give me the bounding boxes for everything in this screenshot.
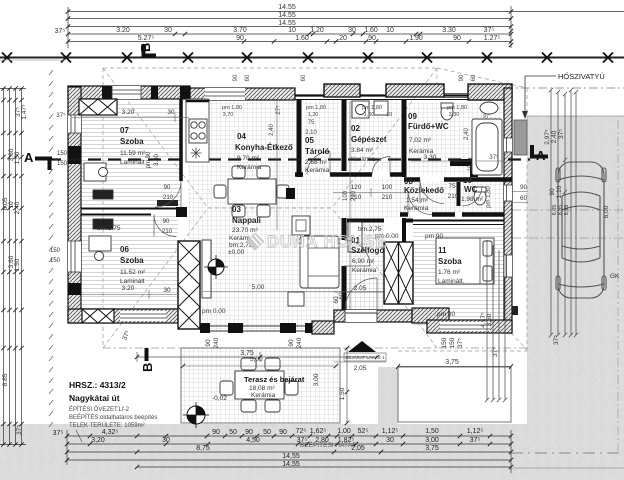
svg-text:bm:2,75: bm:2,75 bbox=[358, 226, 382, 233]
heat pump leader bbox=[525, 76, 556, 113]
wall storage|gepeszet bbox=[342, 99, 347, 171]
svg-text:1.47⁵: 1.47⁵ bbox=[21, 104, 28, 120]
bath south wall bbox=[404, 177, 512, 182]
svg-text:150: 150 bbox=[441, 337, 448, 348]
bath wall stub right bbox=[470, 165, 478, 177]
svg-text:90: 90 bbox=[233, 74, 239, 81]
wc room toilet bbox=[474, 189, 486, 205]
svg-text:3,75: 3,75 bbox=[445, 359, 459, 366]
fence line with X marks bbox=[0, 53, 624, 63]
svg-text:90: 90 bbox=[236, 35, 244, 42]
top wall pier C bbox=[151, 86, 158, 99]
step wall left of szelfogo bbox=[312, 321, 334, 334]
svg-text:50: 50 bbox=[263, 429, 271, 436]
left outer wall band bbox=[68, 87, 81, 323]
benchmark terrace bbox=[183, 402, 209, 428]
wall 08|10 bbox=[457, 182, 461, 206]
svg-text:pm 0.00: pm 0.00 bbox=[202, 308, 226, 315]
svg-text:72⁵: 72⁵ bbox=[296, 428, 307, 435]
bath top-right corner block bbox=[468, 84, 512, 100]
svg-text:GK: GK bbox=[610, 273, 620, 280]
storage room 05 floor bbox=[303, 99, 340, 171]
door 09 arc bbox=[420, 180, 444, 204]
right wall window 11 bbox=[504, 255, 512, 277]
patio dim 3.75 bbox=[398, 366, 511, 368]
sofa living bbox=[300, 236, 339, 288]
coffee table bbox=[288, 292, 304, 306]
svg-text:1,50: 1,50 bbox=[339, 387, 346, 400]
svg-text:Kerámia: Kerámia bbox=[404, 205, 429, 212]
svg-text:Kerámia: Kerámia bbox=[409, 148, 434, 155]
door szelfogo arc bbox=[344, 240, 370, 266]
svg-text:1,12⁵: 1,12⁵ bbox=[382, 428, 399, 435]
svg-text:10: 10 bbox=[468, 164, 474, 171]
svg-text:Szoba: Szoba bbox=[120, 137, 144, 146]
left wall solid pier low bbox=[68, 283, 81, 295]
svg-text:97: 97 bbox=[483, 114, 489, 120]
svg-text:10: 10 bbox=[386, 27, 394, 34]
svg-text:Közlekedő: Közlekedő bbox=[404, 186, 444, 195]
svg-text:HRSZ.: 4313/2: HRSZ.: 4313/2 bbox=[69, 380, 126, 390]
wall room11 north bbox=[404, 218, 413, 242]
svg-text:5.27⁵: 5.27⁵ bbox=[138, 35, 155, 42]
svg-text:pm 1,80: pm 1,80 bbox=[306, 105, 326, 111]
svg-text:90: 90 bbox=[205, 339, 212, 347]
svg-text:90: 90 bbox=[245, 429, 253, 436]
wall szelfogo north stub bbox=[347, 219, 384, 223]
svg-text:1,98 m²: 1,98 m² bbox=[461, 196, 484, 203]
outer top wall band left part bbox=[68, 86, 190, 99]
entrance arrow triangle bbox=[348, 341, 376, 352]
svg-text:52⁵: 52⁵ bbox=[358, 428, 369, 435]
svg-text:37⁵: 37⁵ bbox=[553, 335, 560, 345]
szelfogo 01 floor bbox=[347, 218, 384, 310]
vertical dim kitchen bbox=[276, 101, 278, 230]
dim 3.75 left below building bbox=[137, 352, 377, 362]
tv board bbox=[202, 240, 211, 298]
svg-text:Tároló: Tároló bbox=[305, 147, 330, 156]
svg-text:210: 210 bbox=[351, 190, 357, 201]
door frame block 07|06 bbox=[176, 207, 187, 217]
svg-text:Fürdő+WC: Fürdő+WC bbox=[408, 122, 449, 131]
svg-text:TELEK TERÜLETE: 1059m²: TELEK TERÜLETE: 1059m² bbox=[69, 422, 145, 429]
svg-text:75: 75 bbox=[308, 120, 315, 126]
svg-text:150: 150 bbox=[57, 151, 68, 157]
svg-text:20: 20 bbox=[339, 35, 347, 42]
entrance label box bbox=[344, 353, 386, 361]
svg-text:08: 08 bbox=[404, 177, 413, 186]
living room south sliding door bbox=[200, 326, 312, 331]
svg-text:2,40: 2,40 bbox=[269, 124, 275, 136]
svg-text:Laminált: Laminált bbox=[120, 159, 145, 166]
svg-text:37⁵: 37⁵ bbox=[55, 28, 66, 35]
hall dim line bbox=[333, 188, 412, 197]
svg-text:150: 150 bbox=[50, 258, 61, 264]
svg-text:90: 90 bbox=[549, 188, 556, 196]
svg-text:3,30: 3,30 bbox=[424, 154, 437, 161]
svg-text:30: 30 bbox=[348, 27, 356, 34]
top dimension chain lines bbox=[68, 12, 624, 42]
hall cabinet bbox=[292, 216, 310, 235]
bed room 11 pillow bbox=[483, 241, 492, 256]
svg-text:10: 10 bbox=[288, 27, 296, 34]
svg-text:2.05: 2.05 bbox=[354, 285, 367, 292]
room 11 south wall bbox=[427, 320, 512, 333]
svg-text:Laminált: Laminált bbox=[120, 278, 145, 285]
svg-text:07: 07 bbox=[120, 126, 129, 135]
car top view bbox=[556, 162, 606, 298]
svg-text:60: 60 bbox=[339, 292, 345, 299]
right vertical dim lines through car bbox=[549, 88, 578, 337]
wall kitchen|storage bbox=[297, 99, 302, 177]
svg-text:90: 90 bbox=[163, 219, 170, 225]
svg-text:11.59 m²: 11.59 m² bbox=[120, 150, 146, 157]
svg-text:90: 90 bbox=[288, 339, 295, 347]
terrace 5.00 dim line bbox=[183, 365, 336, 367]
wall segment right of entrance bbox=[412, 308, 449, 323]
chair b1 bbox=[232, 205, 245, 217]
terrace label box bbox=[212, 356, 305, 402]
svg-text:240: 240 bbox=[213, 337, 220, 348]
svg-text:90: 90 bbox=[368, 35, 376, 42]
svg-text:3.70: 3.70 bbox=[233, 27, 247, 34]
right mid dim lines between building and car bbox=[485, 240, 507, 402]
chair t2 bbox=[257, 166, 270, 178]
svg-text:37⁵: 37⁵ bbox=[558, 129, 565, 139]
wall gepeszet|bath bbox=[402, 99, 407, 177]
svg-text:1,60: 1,60 bbox=[364, 112, 375, 118]
left wall window 07 bbox=[68, 115, 81, 133]
svg-text:2,05: 2,05 bbox=[354, 365, 367, 372]
svg-text:±0,00: ±0,00 bbox=[228, 249, 245, 256]
chair 07 bbox=[99, 168, 108, 177]
top wall pier B bbox=[102, 86, 113, 99]
bottom wall room06 segment bbox=[68, 309, 178, 323]
living room 5.00 dim bbox=[203, 291, 384, 293]
svg-text:HŐSZIVATYÚ: HŐSZIVATYÚ bbox=[558, 72, 605, 81]
svg-text:BEÉPÍTÉS:oldalhatáros beépítés: BEÉPÍTÉS:oldalhatáros beépítés bbox=[69, 414, 157, 421]
top wall band kitchen part bbox=[190, 88, 295, 100]
svg-text:60: 60 bbox=[520, 195, 528, 202]
svg-text:14,55: 14,55 bbox=[282, 453, 300, 460]
svg-text:DUNA HOUSE: DUNA HOUSE bbox=[267, 233, 387, 251]
chair r bbox=[277, 185, 289, 198]
svg-text:210: 210 bbox=[162, 229, 173, 235]
window room07 top bbox=[112, 86, 141, 99]
svg-text:7,02 m²: 7,02 m² bbox=[409, 137, 432, 144]
svg-text:18,08 m²: 18,08 m² bbox=[249, 385, 275, 392]
left wall window 06 bbox=[68, 241, 81, 272]
svg-text:B: B bbox=[140, 363, 155, 372]
heat pump unit bbox=[514, 120, 527, 155]
door 05 arc bbox=[307, 152, 330, 175]
cooktop box bbox=[189, 119, 207, 143]
roof eaves dashed outline bbox=[103, 68, 527, 351]
svg-text:3.20: 3.20 bbox=[122, 109, 135, 116]
svg-text:30: 30 bbox=[167, 109, 175, 116]
svg-text:Kerámia: Kerámia bbox=[237, 164, 262, 171]
chair b2 bbox=[257, 205, 270, 217]
svg-text:Kerámia: Kerámia bbox=[352, 267, 377, 274]
section B bottom bbox=[140, 348, 155, 372]
svg-text:Terasz és bejárat: Terasz és bejárat bbox=[244, 375, 305, 384]
svg-text:23.70 m²: 23.70 m² bbox=[232, 227, 258, 234]
kitchen + living + hall ceramic grid floor bbox=[188, 101, 412, 333]
svg-text:05: 05 bbox=[305, 136, 314, 145]
svg-text:14,55: 14,55 bbox=[282, 461, 300, 468]
pier between szelfogo and room11 bbox=[384, 242, 413, 304]
svg-text:1.27⁵: 1.27⁵ bbox=[484, 35, 501, 42]
svg-text:210: 210 bbox=[448, 193, 459, 200]
svg-text:pm 1,80: pm 1,80 bbox=[362, 105, 382, 111]
svg-text:14.55: 14.55 bbox=[278, 12, 296, 19]
right wall door gap bbox=[504, 185, 512, 201]
big pier between 06 and living bbox=[178, 241, 200, 329]
svg-text:pm 90: pm 90 bbox=[437, 311, 455, 318]
svg-text:37⁵: 37⁵ bbox=[470, 437, 481, 444]
door 06 arc bbox=[154, 215, 176, 237]
wardrobe 07 striped bbox=[93, 190, 113, 199]
svg-text:1,12⁵: 1,12⁵ bbox=[467, 428, 484, 435]
dim line room11 bbox=[411, 160, 504, 162]
dim line room06 horizontal bbox=[81, 290, 178, 299]
thin line bottom right bbox=[511, 467, 624, 469]
sliding door stubs bbox=[200, 323, 210, 333]
dash-dot upper right bbox=[470, 87, 624, 89]
bath sink oval bbox=[480, 102, 498, 114]
entrance door gap bbox=[345, 310, 377, 322]
svg-text:2,10: 2,10 bbox=[305, 130, 317, 136]
svg-text:06: 06 bbox=[120, 245, 129, 254]
svg-text:90: 90 bbox=[164, 185, 171, 191]
svg-text:pm 1,80: pm 1,80 bbox=[486, 186, 492, 208]
chimney x-box bottom left bbox=[82, 309, 114, 323]
svg-text:1,54 m²: 1,54 m² bbox=[406, 197, 429, 204]
svg-text:Szoba: Szoba bbox=[438, 257, 462, 266]
hall south wall 08/10 bbox=[400, 212, 504, 217]
svg-text:3.60: 3.60 bbox=[154, 154, 160, 166]
svg-text:pm 1,80: pm 1,80 bbox=[222, 105, 242, 111]
bath tub partition wall bbox=[450, 159, 474, 166]
svg-text:Kerámia: Kerámia bbox=[305, 167, 330, 174]
left riser of top dims bbox=[68, 6, 511, 48]
chair 06 bbox=[95, 252, 104, 261]
terrace chairs bbox=[241, 358, 256, 370]
svg-text:1.76 m²: 1.76 m² bbox=[438, 269, 461, 276]
bed room 11 bbox=[436, 238, 494, 284]
svg-text:1,50: 1,50 bbox=[425, 428, 439, 435]
svg-text:37⁵: 37⁵ bbox=[56, 112, 66, 119]
dining table bbox=[228, 179, 276, 204]
door 02 arc bbox=[372, 157, 390, 175]
chimney x-box top left room07 bbox=[79, 99, 117, 115]
svg-text:3.20: 3.20 bbox=[122, 285, 135, 292]
svg-text:WC: WC bbox=[464, 185, 478, 194]
svg-text:8.85: 8.85 bbox=[2, 373, 9, 386]
svg-text:1,20: 1,20 bbox=[308, 112, 319, 118]
kitchen window top bbox=[205, 88, 245, 100]
svg-text:9.70 m²: 9.70 m² bbox=[237, 155, 260, 162]
wall living|szelfogo bbox=[342, 218, 347, 310]
svg-text:8,75: 8,75 bbox=[196, 445, 210, 452]
svg-text:100: 100 bbox=[382, 184, 393, 191]
svg-text:6,90 m²: 6,90 m² bbox=[352, 258, 375, 265]
svg-text:90: 90 bbox=[279, 429, 287, 436]
svg-text:90: 90 bbox=[459, 74, 465, 81]
svg-text:3,75: 3,75 bbox=[425, 445, 439, 452]
dim line room07 horizontal bbox=[72, 113, 189, 122]
svg-text:60: 60 bbox=[471, 74, 477, 81]
room 06 floor laminate bbox=[81, 216, 178, 309]
svg-text:30: 30 bbox=[162, 437, 170, 444]
right outer wall band (bath block) bbox=[504, 88, 512, 333]
svg-text:Nappali: Nappali bbox=[232, 216, 261, 225]
svg-text:90: 90 bbox=[212, 429, 220, 436]
svg-text:02: 02 bbox=[351, 124, 360, 133]
property boundary left bbox=[49, 70, 53, 427]
svg-text:37⁵: 37⁵ bbox=[484, 27, 495, 34]
section A right bbox=[530, 145, 548, 163]
chair l bbox=[214, 185, 226, 198]
hall 08 + wc 10 floor bbox=[400, 182, 504, 212]
svg-text:3,20: 3,20 bbox=[91, 437, 105, 444]
top wall pier A bbox=[68, 86, 81, 99]
svg-text:50: 50 bbox=[229, 429, 237, 436]
svg-text:1.20: 1.20 bbox=[310, 27, 324, 34]
svg-text:5,00: 5,00 bbox=[252, 284, 265, 291]
svg-text:10: 10 bbox=[463, 176, 472, 185]
svg-text:6,00: 6,00 bbox=[603, 205, 610, 218]
left dimension block bbox=[0, 86, 26, 446]
svg-text:30: 30 bbox=[163, 287, 171, 294]
svg-text:30: 30 bbox=[386, 437, 394, 444]
dash-dot parking right vertical bbox=[617, 120, 619, 455]
section A left bbox=[24, 150, 52, 170]
svg-text:60: 60 bbox=[301, 74, 307, 81]
interior wall 07|06 double line bbox=[81, 209, 178, 215]
room 11 floor laminate bbox=[413, 218, 504, 325]
svg-text:pm 90: pm 90 bbox=[146, 151, 152, 168]
room 11 south window bbox=[440, 322, 490, 331]
gray zone right strip bbox=[527, 116, 624, 480]
svg-text:3,60: 3,60 bbox=[486, 313, 493, 326]
left wall solid pier mid bbox=[68, 146, 81, 164]
svg-text:37⁵: 37⁵ bbox=[489, 154, 499, 161]
bottom window room06 bbox=[120, 311, 166, 321]
dresser room 07 by door bbox=[157, 200, 178, 206]
vertical dim right of terrace bbox=[346, 348, 348, 423]
boundary dashed line below fence bbox=[0, 59, 66, 61]
terrace outline bbox=[181, 348, 340, 423]
svg-text:27⁵: 27⁵ bbox=[275, 105, 282, 115]
svg-text:14.55: 14.55 bbox=[278, 4, 296, 11]
svg-text:37⁵: 37⁵ bbox=[492, 347, 499, 357]
svg-text:150: 150 bbox=[57, 161, 68, 167]
desk 06 bbox=[89, 236, 111, 251]
vertical dims below building doors bbox=[122, 296, 464, 348]
svg-text:Konyha-Étkező: Konyha-Étkező bbox=[235, 143, 293, 152]
svg-text:bm:2.75: bm:2.75 bbox=[97, 225, 121, 232]
door 08 arc bbox=[408, 191, 432, 215]
svg-text:1.50: 1.50 bbox=[14, 258, 21, 271]
svg-text:210: 210 bbox=[382, 194, 393, 201]
svg-text:09: 09 bbox=[408, 112, 417, 121]
svg-text:8,95: 8,95 bbox=[564, 205, 570, 216]
svg-text:3.84 m²: 3.84 m² bbox=[351, 147, 374, 154]
svg-text:Nagykátai út: Nagykátai út bbox=[69, 393, 120, 403]
entrance dims bbox=[334, 292, 386, 362]
right wall stub block bbox=[512, 306, 518, 315]
bath wc bbox=[441, 104, 453, 120]
svg-text:210: 210 bbox=[163, 195, 174, 201]
svg-text:1.90: 1.90 bbox=[409, 35, 423, 42]
svg-text:3,30: 3,30 bbox=[449, 112, 460, 118]
washer gepeszet bbox=[352, 101, 369, 118]
top pier box 2 bbox=[386, 84, 444, 97]
section line A-A heavy dashed bbox=[48, 158, 530, 160]
section B top bbox=[138, 43, 156, 58]
svg-text:3,00: 3,00 bbox=[313, 373, 320, 386]
interior wall 07|04 bbox=[179, 99, 183, 181]
svg-text:1.60: 1.60 bbox=[364, 27, 378, 34]
svg-text:3,00: 3,00 bbox=[425, 437, 439, 444]
szelfogo cabinet bbox=[348, 222, 362, 252]
svg-text:60: 60 bbox=[245, 74, 251, 81]
svg-text:Szoba: Szoba bbox=[120, 256, 144, 265]
svg-text:1.50: 1.50 bbox=[14, 151, 21, 164]
gepeszet 02 floor bbox=[347, 99, 400, 171]
sink star symbol bbox=[191, 148, 202, 159]
desk 07 bbox=[84, 163, 106, 181]
svg-text:75: 75 bbox=[448, 183, 456, 190]
top wall pier D bbox=[180, 86, 190, 99]
svg-text:3,70: 3,70 bbox=[223, 112, 234, 118]
svg-text:Kerámia: Kerámia bbox=[251, 392, 276, 399]
svg-text:2,40: 2,40 bbox=[464, 128, 470, 140]
svg-text:2.40: 2.40 bbox=[14, 201, 21, 214]
svg-text:90: 90 bbox=[520, 184, 528, 191]
svg-text:pm 90: pm 90 bbox=[425, 233, 443, 240]
svg-text:Kerámia: Kerámia bbox=[351, 156, 376, 163]
terrace grid bbox=[181, 348, 340, 423]
svg-text:2,40: 2,40 bbox=[551, 130, 558, 143]
gray zone bottom band bbox=[0, 424, 624, 480]
svg-text:ÉPÍTÉSI ÖVEZET:Lf-2: ÉPÍTÉSI ÖVEZET:Lf-2 bbox=[69, 406, 130, 413]
svg-text:-0,02: -0,02 bbox=[212, 395, 227, 402]
svg-text:150: 150 bbox=[449, 337, 456, 348]
dash-dot bottom boundary bbox=[511, 452, 624, 454]
svg-text:pm 1,80: pm 1,80 bbox=[447, 105, 467, 111]
svg-text:37⁵: 37⁵ bbox=[16, 425, 23, 435]
svg-text:4,50: 4,50 bbox=[246, 437, 260, 444]
room 07 floor laminate bbox=[81, 101, 181, 207]
svg-text:1.60: 1.60 bbox=[295, 35, 309, 42]
svg-text:37⁵: 37⁵ bbox=[53, 430, 64, 437]
svg-text:2,97⁵: 2,97⁵ bbox=[544, 129, 551, 145]
svg-text:240: 240 bbox=[296, 337, 303, 348]
boiler gepeszet bbox=[374, 101, 388, 115]
kitchen counter left bbox=[186, 99, 209, 162]
svg-text:Laminált.: Laminált. bbox=[438, 278, 465, 285]
svg-text:14.55: 14.55 bbox=[278, 20, 296, 27]
svg-text:37⁵: 37⁵ bbox=[457, 338, 464, 348]
svg-text:150: 150 bbox=[50, 248, 61, 254]
svg-text:03: 03 bbox=[232, 205, 241, 214]
szelfogo south wall bbox=[334, 310, 412, 322]
svg-text:100: 100 bbox=[343, 190, 349, 201]
right wall window bath bbox=[504, 138, 512, 152]
svg-text:3,75: 3,75 bbox=[240, 350, 254, 357]
